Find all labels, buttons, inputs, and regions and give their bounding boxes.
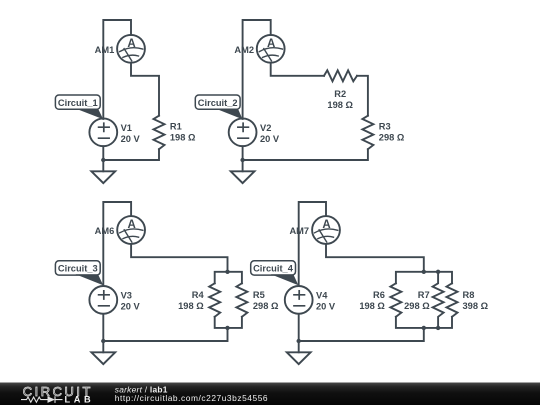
junction node circuit 2 [240, 158, 244, 162]
svg-text:R4: R4 [192, 290, 205, 300]
svg-text:20 V: 20 V [121, 302, 141, 312]
wire ammeter AM6 to parallel network [131, 244, 227, 272]
label R2 198 ohm [327, 89, 353, 110]
wire R2 to R3 [357, 76, 368, 116]
voltage source V4 [285, 286, 313, 314]
svg-text:AM1: AM1 [95, 45, 115, 55]
ammeter AM1 [117, 35, 145, 63]
svg-text:Circuit_4: Circuit_4 [253, 264, 294, 274]
voltage source V2 [229, 118, 257, 146]
junction node circuit 3 bottom [225, 326, 229, 330]
svg-text:AM6: AM6 [95, 226, 115, 236]
resistor R8 [447, 283, 458, 317]
wire top bar parallel R4 R5 [215, 272, 242, 284]
svg-text:Circuit_1: Circuit_1 [58, 98, 98, 108]
wire R3 bottom rail circuit 2 [243, 149, 368, 160]
ground circuit 3 [91, 341, 115, 364]
svg-text:298 Ω: 298 Ω [404, 301, 430, 311]
wire ammeter AM2 to resistor R2 [271, 63, 324, 76]
logo schematic squiggle with diode [21, 396, 63, 403]
label V2 20 V [260, 123, 280, 144]
junction node circuit 4 bottom left [422, 326, 426, 330]
svg-text:R3: R3 [379, 122, 391, 132]
wire top loop circuit 3 [103, 202, 131, 286]
junction node circuit 1 [101, 158, 105, 162]
ammeter AM6 [117, 216, 145, 244]
resistor R5 [236, 283, 247, 317]
junction node circuit 4 top left [422, 270, 426, 274]
callout Circuit_1 [55, 95, 103, 119]
svg-text:A: A [267, 38, 275, 50]
wire V1 bottom lead [102, 146, 104, 160]
wire top loop circuit 4 [299, 202, 326, 286]
wire ammeter AM7 to parallel network [326, 244, 424, 272]
svg-text:198 Ω: 198 Ω [359, 301, 385, 311]
svg-text:398 Ω: 398 Ω [463, 301, 489, 311]
label V3 20 V [121, 291, 141, 312]
voltage source V3 [89, 286, 117, 314]
label R3 298 ohm [379, 122, 405, 143]
label V4 20 V [316, 291, 336, 312]
ground circuit 4 [287, 341, 311, 364]
svg-text:V1: V1 [121, 123, 132, 133]
resistor R4 [209, 283, 220, 317]
wire V2 bottom lead [242, 146, 244, 160]
label R5 298 ohm [253, 290, 279, 311]
svg-text:A: A [322, 219, 330, 231]
wire bottom rail circuit 4 [299, 328, 424, 341]
svg-text:http://circuitlab.com/c227u3bz: http://circuitlab.com/c227u3bz54556 [115, 393, 268, 403]
svg-text:R1: R1 [170, 122, 182, 132]
svg-text:198 Ω: 198 Ω [170, 133, 196, 143]
svg-text:198 Ω: 198 Ω [178, 301, 204, 311]
svg-text:R8: R8 [463, 290, 475, 300]
svg-text:Circuit_2: Circuit_2 [198, 98, 238, 108]
svg-text:298 Ω: 298 Ω [379, 133, 405, 143]
svg-text:LAB: LAB [65, 395, 95, 405]
wire V4 bottom lead [298, 314, 300, 341]
callout Circuit_3 [55, 261, 103, 285]
ground circuit 1 [91, 160, 115, 183]
junction node circuit 3 ground [101, 339, 105, 343]
footer bar [0, 383, 540, 405]
svg-text:20 V: 20 V [316, 302, 336, 312]
wire V3 bottom lead [102, 314, 104, 341]
svg-text:A: A [127, 219, 135, 231]
resistor R6 [390, 283, 401, 317]
callout Circuit_4 [251, 261, 299, 285]
svg-text:Circuit_3: Circuit_3 [58, 264, 98, 274]
ground circuit 2 [231, 160, 255, 183]
resistor R7 [433, 272, 444, 328]
junction node circuit 4 ground [297, 339, 301, 343]
junction node circuit 4 top right [436, 270, 440, 274]
svg-text:R7: R7 [418, 290, 430, 300]
junction node circuit 4 bottom right [436, 326, 440, 330]
wire bottom bar parallel R4 R5 [215, 317, 242, 328]
wire bottom rail circuit 3 [103, 328, 227, 341]
svg-text:V2: V2 [260, 123, 271, 133]
svg-text:R2: R2 [334, 89, 346, 99]
svg-text:R5: R5 [253, 290, 265, 300]
wire ammeter AM1 to resistor R1 [131, 63, 159, 116]
wire top bar parallel R6 R7 R8 [396, 272, 452, 284]
label R6 198 ohm [359, 290, 385, 311]
resistor R1 [154, 116, 165, 150]
wire top loop circuit 1 [103, 20, 131, 119]
label V1 20 V [121, 123, 141, 144]
svg-text:20 V: 20 V [121, 134, 141, 144]
ammeter AM2 [257, 35, 285, 63]
svg-text:R6: R6 [373, 290, 385, 300]
svg-text:298 Ω: 298 Ω [253, 301, 279, 311]
svg-text:AM2: AM2 [234, 45, 254, 55]
voltage source V1 [89, 118, 117, 146]
resistor R3 [362, 116, 373, 150]
svg-text:A: A [127, 38, 135, 50]
wire R1 bottom rail circuit 1 [103, 149, 159, 160]
label R8 398 ohm [463, 290, 489, 311]
resistor R2 [324, 70, 357, 81]
svg-text:AM7: AM7 [289, 226, 309, 236]
svg-text:V4: V4 [316, 291, 328, 301]
wire bottom bar parallel R6 R7 R8 [396, 317, 452, 328]
ammeter AM7 [312, 216, 340, 244]
label R7 298 ohm [404, 290, 430, 311]
label R4 198 ohm [178, 290, 204, 311]
wire top loop circuit 2 [243, 20, 271, 119]
junction node circuit 3 top [225, 270, 229, 274]
label R1 198 ohm [170, 122, 196, 143]
svg-text:20 V: 20 V [260, 134, 280, 144]
svg-text:198 Ω: 198 Ω [327, 100, 353, 110]
callout Circuit_2 [195, 95, 242, 119]
svg-text:V3: V3 [121, 291, 132, 301]
